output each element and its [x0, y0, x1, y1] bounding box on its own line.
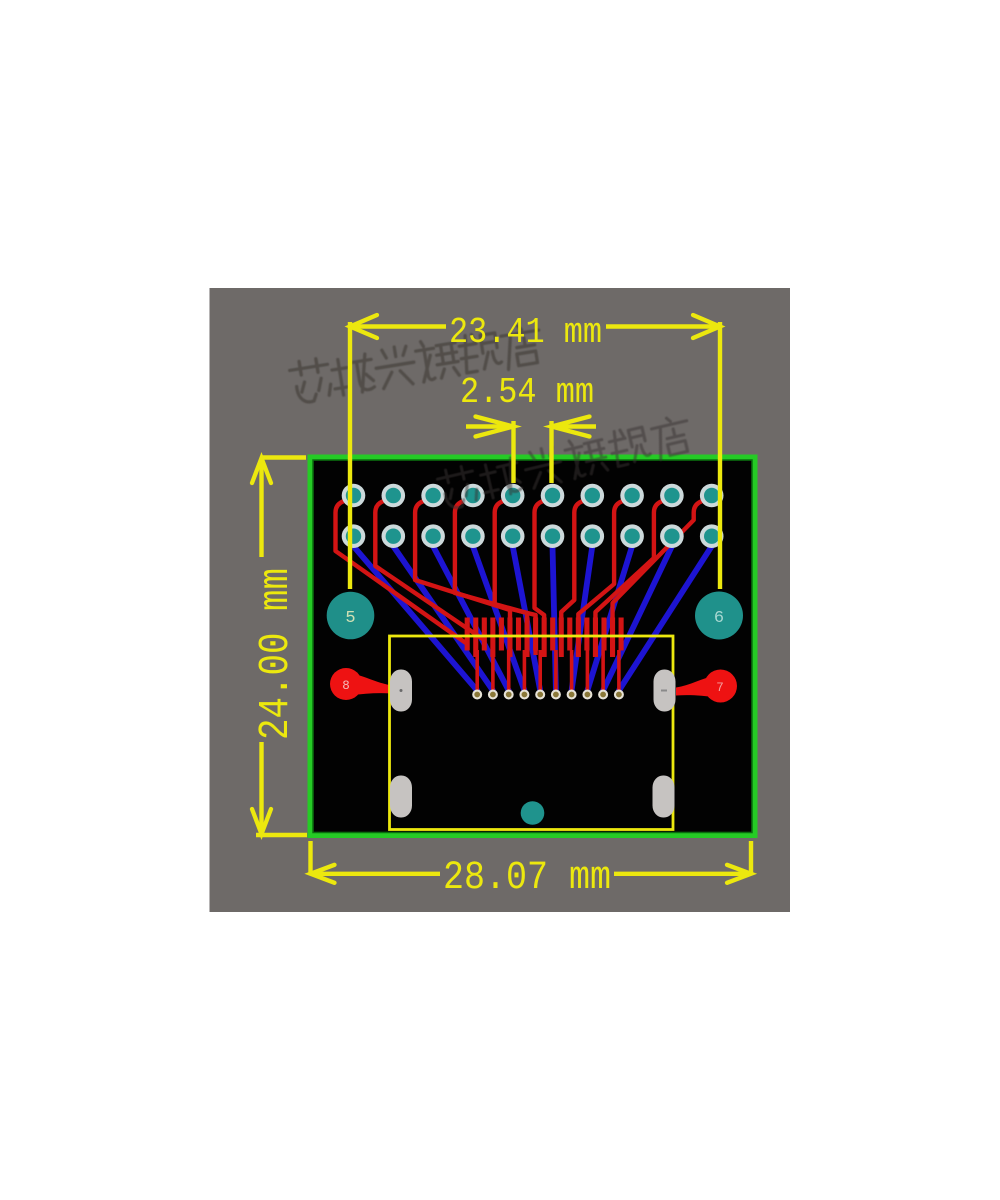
- test point 8 (red teardrop): [330, 668, 392, 700]
- test point 7 (red teardrop): [676, 670, 737, 703]
- through-hole pad B3 (row 2): [421, 524, 445, 548]
- through-hole pad A3 (row 1): [421, 484, 445, 508]
- connector courtyard (yellow outline): [390, 636, 674, 830]
- svg-text:23.41 mm: 23.41 mm: [449, 312, 602, 353]
- through-hole pad A4 (row 1): [461, 484, 485, 508]
- fiducial 5 (teal circle): [327, 592, 375, 640]
- PCB board (black substrate): [308, 455, 758, 839]
- drill mark M2: [661, 690, 667, 692]
- through-hole pad B4 (row 2): [461, 524, 485, 548]
- wire: blue trace from pad B4 to pin 4: [473, 536, 525, 694]
- pin hole 7: [567, 690, 577, 700]
- dimension 23.41mm (top): [350, 322, 720, 589]
- through-hole pad A6 (row 1): [541, 484, 565, 508]
- wire: blue trace from pad B3 to pin 3: [433, 536, 509, 694]
- mounting pad M2 (gray oval): [654, 670, 676, 712]
- through-hole pad A8 (row 1): [620, 484, 644, 508]
- pin hole 3: [504, 690, 514, 700]
- dimension 28.07mm (bottom): [311, 841, 752, 874]
- svg-text:2.54 mm: 2.54 mm: [460, 372, 594, 413]
- wire: red trace from pad A10 to connector finger: [613, 500, 706, 655]
- drill mark M1: [400, 689, 403, 692]
- mounting pad M4 (gray oval): [653, 776, 675, 818]
- through-hole pad A10 (row 1): [700, 484, 724, 508]
- through-hole pad A2 (row 1): [382, 484, 406, 508]
- through-hole pad A5 (row 1): [501, 484, 525, 508]
- pin hole 8: [582, 690, 592, 700]
- connector finger pads (red comb): [465, 618, 624, 658]
- wire: blue trace from pad B9 to pin 9: [603, 536, 672, 694]
- wire: red trace from pad A8 to connector finger: [578, 500, 626, 655]
- fiducial 6 (teal circle): [695, 592, 743, 640]
- wire: blue trace from pad B7 to pin 7: [572, 536, 593, 694]
- svg-text:5: 5: [345, 609, 355, 628]
- svg-text:8: 8: [342, 679, 350, 693]
- svg-text:7: 7: [716, 681, 724, 695]
- through-hole pad A7 (row 1): [581, 484, 605, 508]
- through-hole pad A9 (row 1): [660, 484, 684, 508]
- watermark row 1 ("store name" upper): [289, 322, 547, 406]
- through-hole pad B8 (row 2): [620, 524, 644, 548]
- wire: blue trace from pad B5 to pin 5: [513, 536, 541, 694]
- through-hole pad B2 (row 2): [382, 524, 406, 548]
- watermark row 2 ("store name" lower): [436, 413, 697, 512]
- svg-text:6: 6: [714, 609, 724, 628]
- wire: blue trace from pad B10 to pin 10: [619, 536, 712, 694]
- pin hole 2: [488, 690, 498, 700]
- wire: blue trace from pad B1 to pin 1: [354, 536, 478, 694]
- svg-text:24.00 mm: 24.00 mm: [251, 568, 300, 740]
- through-hole pad B7 (row 2): [581, 524, 605, 548]
- photo background (gray): [210, 288, 791, 912]
- pin hole 1: [472, 690, 482, 700]
- through-hole pad B6 (row 2): [541, 524, 565, 548]
- pin hole 5: [535, 690, 545, 700]
- pin hole 9: [598, 690, 608, 700]
- pin hole 10: [614, 690, 624, 700]
- mounting pad M3 (gray oval): [390, 776, 412, 818]
- svg-text:28.07 mm: 28.07 mm: [443, 856, 611, 901]
- via (teal circle bottom): [521, 801, 545, 825]
- mounting pad M1 (gray oval): [390, 670, 412, 712]
- through-hole pad A1 (row 1): [342, 484, 366, 508]
- dimension 24.00mm (left, vertical): [256, 458, 307, 836]
- wire: red links from comb to pin holes: [477, 650, 619, 695]
- wire: red trace from pad A6 to connector finger: [535, 500, 547, 655]
- wire: blue trace from pad B6 to pin 6: [553, 536, 556, 694]
- wire: red trace from pad A7 to connector finger: [561, 500, 586, 655]
- wire: red trace from pad A2 to connector finger: [375, 500, 484, 640]
- wire: red trace from pad A3 to connector finger: [415, 500, 510, 655]
- pin hole 4: [519, 690, 529, 700]
- through-hole pad B9 (row 2): [660, 524, 684, 548]
- wire: red trace from pad A4 to connector finger: [455, 500, 527, 655]
- through-hole pad B5 (row 2): [501, 524, 525, 548]
- wire: blue trace from pad B2 to pin 2: [393, 536, 493, 694]
- wire: blue trace from pad B8 to pin 8: [587, 536, 632, 694]
- PCB board outline (green silkscreen border): [310, 457, 755, 836]
- wire: red trace from pad A5 to connector finger: [495, 500, 536, 655]
- wire: red trace from pad A1 to connector finger: [336, 500, 468, 644]
- through-hole pad B10 (row 2): [700, 524, 724, 548]
- dimension 2.54mm (pad pitch): [466, 421, 596, 483]
- wire: red trace from pad A9 to connector finger: [595, 500, 665, 655]
- through-hole pad B1 (row 2): [342, 524, 366, 548]
- pin hole 6: [551, 690, 561, 700]
